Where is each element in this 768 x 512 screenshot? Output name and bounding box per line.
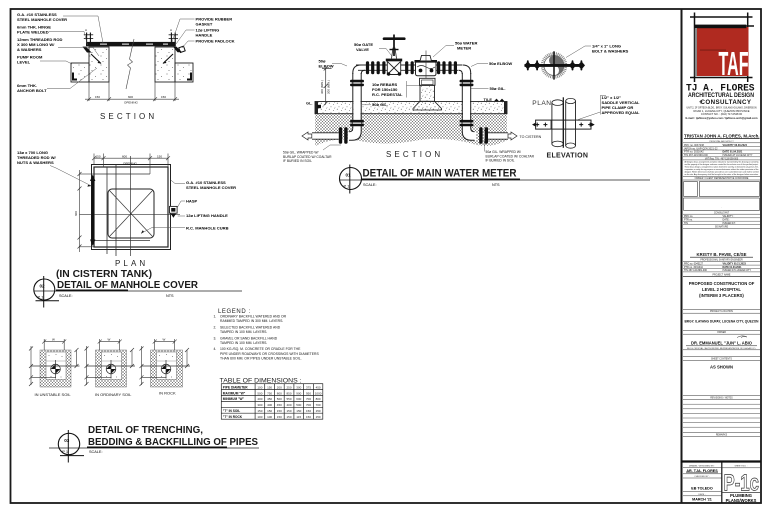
left dimension line	[78, 170, 95, 252]
svg-text:EB TOLEDO: EB TOLEDO	[691, 487, 713, 491]
svg-text:GL.: GL.	[306, 101, 312, 106]
svg-text:AS SHOWN: AS SHOWN	[710, 364, 733, 369]
logo red square	[697, 27, 749, 76]
top dimension line	[92, 154, 170, 175]
legend item 2	[214, 325, 281, 334]
svg-text:TO CISTERN: TO CISTERN	[520, 135, 542, 139]
svg-text:TAMPED IN 100 MM. LAYERS.: TAMPED IN 100 MM. LAYERS.	[220, 330, 267, 334]
water meter title line	[340, 178, 651, 181]
logo frame	[690, 13, 754, 83]
svg-text:300 (MIN.): 300 (MIN.)	[320, 80, 324, 94]
sanitary rows	[684, 262, 752, 272]
curb inner square	[94, 167, 168, 247]
trench detail in rock	[140, 338, 191, 396]
svg-text:KRISTY B. PAVIE, CE/SE: KRISTY B. PAVIE, CE/SE	[697, 252, 747, 257]
svg-text:3.: 3.	[214, 336, 217, 340]
annotation threaded rod plan	[17, 150, 92, 187]
sheet contents heading	[683, 356, 760, 358]
break line	[126, 39, 134, 89]
anchor rod right diagonal	[163, 54, 173, 64]
svg-text:DR. EMMANUEL "JUN" L. ABIO: DR. EMMANUEL "JUN" L. ABIO	[691, 341, 753, 346]
svg-text:150: 150	[306, 415, 311, 419]
svg-text:CONSULTANT: CONSULTANT	[714, 211, 730, 214]
manhole cover SECTION detail	[17, 12, 235, 121]
svg-text:PIPE DIAMETER: PIPE DIAMETER	[223, 385, 248, 389]
flange pairs on vertical pipes	[350, 80, 474, 86]
svg-text:IN ROCK: IN ROCK	[159, 391, 176, 396]
svg-text:MAXIMUM "W": MAXIMUM "W"	[223, 391, 246, 395]
svg-text:200 (MIN.): 200 (MIN.)	[327, 80, 331, 94]
svg-text:IF BURIED IN SOIL: IF BURIED IN SOIL	[486, 159, 515, 163]
svg-text:550: 550	[286, 397, 291, 401]
svg-text:600: 600	[74, 211, 78, 216]
svg-text:DRAWN / DESIGNED BY :: DRAWN / DESIGNED BY :	[689, 464, 716, 467]
svg-text:700: 700	[306, 397, 311, 401]
cover top edge lines	[94, 173, 150, 175]
svg-text:LEVEL: LEVEL	[17, 60, 31, 65]
pipe clamp PLAN detail	[524, 44, 640, 160]
title line	[34, 289, 242, 292]
svg-text:(INTERIM 3 PLACERS): (INTERIM 3 PLACERS)	[699, 293, 744, 298]
svg-text:150: 150	[95, 95, 100, 99]
svg-text:R.C. MANHOLE CURB: R.C. MANHOLE CURB	[186, 226, 229, 231]
svg-text:600: 600	[128, 95, 133, 99]
svg-text:REVISIONS / NOTES: REVISIONS / NOTES	[710, 398, 733, 400]
svg-text:SCALE:: SCALE:	[59, 294, 73, 298]
svg-text:100 KG./SQ. M. CONCRETE OR CRA: 100 KG./SQ. M. CONCRETE OR CRADLE FOR TH…	[220, 347, 301, 351]
detail bubble 01	[340, 165, 362, 194]
annotation gate valve	[354, 42, 392, 56]
svg-text:ELBOW: ELBOW	[319, 64, 334, 69]
left vertical pipe	[353, 73, 361, 125]
svg-text:150: 150	[306, 409, 311, 413]
owner name with flourish	[737, 336, 747, 338]
svg-text:SIGNATURE: SIGNATURE	[715, 226, 729, 229]
project name	[689, 281, 755, 298]
clamp bolts right	[569, 60, 585, 70]
svg-text:NTS: NTS	[492, 183, 500, 187]
svg-text:"T" IN SOIL: "T" IN SOIL	[223, 409, 240, 413]
trench detail in unstable soil	[29, 338, 80, 397]
svg-text:600: 600	[296, 397, 301, 401]
annotation elbow left	[319, 59, 348, 69]
annotation bolt washers	[566, 44, 629, 58]
svg-text:400: 400	[267, 403, 272, 407]
svg-text:on the site. Any discrepancy s: on the site. Any discrepancy shall be br…	[685, 173, 759, 176]
annotation elbow right	[471, 61, 512, 67]
svg-text:150: 150	[316, 409, 321, 413]
svg-text:TAMPED IN 100 MM. LAYERS.: TAMPED IN 100 MM. LAYERS.	[220, 341, 267, 345]
annotation saddle clamp	[576, 95, 640, 120]
svg-text:THAN 600 MM. OR PIPES UNDER UN: THAN 600 MM. OR PIPES UNDER UNSTABLE SOI…	[220, 357, 302, 361]
svg-text:LEVEL 2 HOSPITAL: LEVEL 2 HOSPITAL	[702, 287, 741, 292]
svg-text:SELECTED BACKFILL WATERED AND: SELECTED BACKFILL WATERED AND	[220, 325, 281, 329]
curb outer square	[92, 165, 171, 250]
svg-text:02: 02	[40, 284, 46, 289]
logo shadow	[695, 28, 697, 76]
svg-text:SECTION: SECTION	[386, 150, 443, 159]
svg-text:OPENING: OPENING	[123, 161, 138, 165]
main water meter detail	[283, 35, 650, 194]
svg-text:BRGY. ILAYANG DUPAY, LUCENA CI: BRGY. ILAYANG DUPAY, LUCENA CITY, QUEZON	[685, 319, 759, 323]
logo top black bar	[695, 25, 747, 29]
slab right end cap	[504, 102, 507, 114]
svg-text:150: 150	[267, 409, 272, 413]
left bottom elbow and stub pipe	[302, 122, 361, 144]
svg-text:METER: METER	[457, 46, 471, 51]
manhole cover PLAN detail	[17, 150, 242, 308]
left anchor bolt	[84, 28, 93, 42]
svg-text:OPENING: OPENING	[124, 100, 139, 104]
annotation threaded rod	[17, 37, 99, 56]
svg-text:DETAIL OF TRENCHING,: DETAIL OF TRENCHING,	[88, 424, 203, 436]
svg-text:APPROVED EQUAL: APPROVED EQUAL	[602, 110, 641, 115]
annotation hinge plate	[17, 25, 88, 46]
detail bubble 02	[34, 276, 59, 308]
svg-text:115: 115	[296, 415, 301, 419]
svg-text:CONTACT NO. : (042) 717-0528 0: CONTACT NO. : (042) 717-0528 00	[701, 112, 743, 116]
logo small text line	[700, 50, 726, 51]
annotation padlock	[182, 39, 235, 49]
svg-text:P-1c: P-1c	[724, 470, 760, 496]
svg-text:DETAIL OF MAIN WATER METER: DETAIL OF MAIN WATER METER	[363, 168, 517, 180]
legend item 4	[214, 347, 320, 360]
svg-text:GASKET: GASKET	[196, 22, 213, 27]
elevation front pipe	[552, 100, 563, 147]
svg-text:300: 300	[296, 385, 301, 389]
left wall concrete	[89, 47, 109, 82]
dimension line section	[85, 97, 179, 101]
svg-text:& WASHERS: & WASHERS	[17, 47, 42, 52]
svg-text:W: W	[108, 338, 111, 342]
left ledge footing	[71, 63, 89, 82]
centerline horizontal	[80, 214, 181, 216]
anchor rod left diagonal	[91, 54, 101, 64]
svg-text:4.: 4.	[214, 347, 217, 351]
curb inner verticals	[106, 167, 108, 254]
pedestal column	[413, 85, 442, 110]
svg-text:700: 700	[306, 403, 311, 407]
elevation rear pipe	[566, 98, 576, 148]
svg-text:ANCHOR BOLT: ANCHOR BOLT	[17, 88, 47, 93]
project location heading	[683, 308, 760, 310]
svg-text:450: 450	[277, 403, 282, 407]
concrete slab	[315, 102, 507, 114]
svg-text:AR. TJA. FLORES: AR. TJA. FLORES	[686, 469, 718, 473]
svg-text:SCALE:: SCALE:	[363, 183, 377, 187]
svg-text:SCALE:: SCALE:	[89, 450, 103, 454]
svg-text:MARCH '21: MARCH '21	[692, 498, 712, 502]
svg-text:50ø GIL.: 50ø GIL.	[372, 102, 388, 107]
svg-text:TRISTAN JOHN A. FLORES, M.Arch: TRISTAN JOHN A. FLORES, M.Arch.	[684, 133, 760, 138]
svg-text:DATE :: DATE :	[699, 493, 706, 496]
svg-text:1.: 1.	[214, 315, 217, 319]
svg-text:600: 600	[122, 154, 127, 158]
remarks heading	[683, 431, 760, 433]
svg-text:IF BURIED IN SOIL: IF BURIED IN SOIL	[283, 159, 312, 163]
annotation rubber gasket	[172, 17, 232, 43]
centerline vertical	[129, 156, 131, 256]
svg-text:ORDINARY BACKFILL WATERED AND: ORDINARY BACKFILL WATERED AND OR	[220, 315, 287, 319]
right vertical pipe	[462, 73, 470, 125]
annotation plan cover	[171, 180, 236, 190]
svg-text:400: 400	[286, 403, 291, 407]
svg-text:A: A	[170, 28, 172, 32]
table row labels	[223, 385, 248, 419]
svg-text:400: 400	[257, 397, 262, 401]
annotation pump room level	[17, 55, 72, 65]
gate valve stem and handle	[384, 35, 404, 59]
svg-text:150: 150	[277, 409, 282, 413]
trenching title line	[49, 446, 259, 449]
disclaimer paragraph	[685, 161, 760, 177]
svg-text:1000: 1000	[315, 391, 322, 395]
svg-text:PLAN: PLAN	[532, 100, 551, 107]
svg-text:150: 150	[257, 409, 262, 413]
svg-text:P 1: P 1	[344, 184, 351, 189]
svg-text:12ø LIFTING HANDLE: 12ø LIFTING HANDLE	[186, 213, 228, 218]
svg-text:900: 900	[296, 391, 301, 395]
consultant rows	[684, 215, 736, 225]
svg-text:03: 03	[64, 438, 70, 443]
wall extension lines below	[89, 82, 175, 101]
legend item 1	[214, 315, 287, 324]
svg-text:W: W	[163, 338, 166, 342]
left hinge plate	[83, 47, 92, 53]
svg-text:700: 700	[316, 403, 321, 407]
svg-text:STEEL MANHOLE COVER: STEEL MANHOLE COVER	[186, 185, 236, 190]
manhole cover plate	[86, 42, 176, 47]
annotation gil left	[362, 102, 388, 107]
svg-text:50ø ELBOW: 50ø ELBOW	[489, 61, 512, 66]
svg-text:375: 375	[306, 385, 311, 389]
clamp band elevation	[532, 120, 595, 129]
svg-text:PROFESSIONAL SANITARY ENGINEER: PROFESSIONAL SANITARY ENGINEER	[700, 259, 743, 262]
title block left border	[681, 9, 683, 503]
right anchor bolt	[169, 28, 178, 42]
svg-text:PROPOSED CONSTRUCTION OF: PROPOSED CONSTRUCTION OF	[689, 281, 755, 286]
svg-text:SHEET CONTENTS: SHEET CONTENTS	[711, 358, 732, 360]
hasp	[170, 206, 178, 217]
svg-text:HANDLE: HANDLE	[196, 33, 213, 38]
svg-text:MINIMUM "W": MINIMUM "W"	[223, 397, 245, 401]
license rows	[684, 144, 753, 157]
right elbow	[459, 65, 471, 74]
svg-text:150: 150	[296, 409, 301, 413]
table of dimensions grid	[221, 384, 322, 420]
svg-text:OWNER / CLIENT REPRESENTATIVE: OWNER / CLIENT REPRESENTATIVE CONFORME	[695, 177, 749, 180]
svg-text:P 1: P 1	[38, 295, 45, 300]
slab left end cap	[315, 102, 318, 114]
annotation water meter	[433, 41, 477, 58]
svg-text:500: 500	[257, 391, 262, 395]
detail bubble 03	[58, 430, 84, 463]
svg-text:150: 150	[267, 385, 272, 389]
address lines	[687, 106, 757, 116]
svg-text:150: 150	[286, 415, 291, 419]
right wall concrete	[155, 47, 175, 82]
svg-text:ELEVATION: ELEVATION	[547, 153, 589, 160]
svg-text:SECTION: SECTION	[100, 112, 157, 121]
svg-text:PROJECT LOCATION: PROJECT LOCATION	[710, 310, 733, 313]
svg-text:IN ORDINARY SOIL: IN ORDINARY SOIL	[95, 392, 132, 397]
svg-text:VAT Reg. TIN : 467-119-590-000: VAT Reg. TIN : 467-119-590-000	[705, 157, 739, 160]
svg-text:PLAN: PLAN	[115, 259, 148, 268]
annotation lifting handle	[176, 28, 219, 45]
svg-text:PROVIDE PADLOCK: PROVIDE PADLOCK	[196, 39, 235, 44]
svg-text:50ø GIL.: 50ø GIL.	[490, 86, 506, 91]
svg-text:250: 250	[286, 385, 291, 389]
svg-text:PIPE UNDER ROADWAYS OR CROSSIN: PIPE UNDER ROADWAYS OR CROSSINGS WITH DI…	[220, 352, 319, 356]
svg-text:IN UNSTABLE SOIL: IN UNSTABLE SOIL	[35, 392, 72, 397]
svg-text:750: 750	[267, 391, 272, 395]
svg-text:300: 300	[257, 403, 262, 407]
svg-text:NTS: NTS	[166, 294, 174, 298]
svg-text:DETAIL OF MANHOLE COVER: DETAIL OF MANHOLE COVER	[57, 279, 198, 291]
svg-text:150: 150	[96, 154, 101, 158]
right padlock hasp	[173, 46, 185, 52]
slab corner block	[317, 105, 321, 108]
svg-text:RAMMED TAMPED IN 300 MM. LAYER: RAMMED TAMPED IN 300 MM. LAYERS.	[220, 319, 283, 323]
svg-text:BEDDING & BACKFILLING OF PIPES: BEDDING & BACKFILLING OF PIPES	[88, 436, 258, 448]
svg-text:E-mail : tjaflores@yahoo.com /: E-mail : tjaflores@yahoo.com / tjaflores…	[686, 116, 759, 120]
elevation centerline	[562, 97, 564, 148]
title block	[681, 9, 761, 503]
signature boxes	[684, 182, 698, 197]
svg-text:SHEET NO. :: SHEET NO. :	[735, 465, 748, 467]
svg-text:100: 100	[267, 415, 272, 419]
svg-text:450: 450	[316, 385, 321, 389]
svg-text:TILE: TILE	[484, 97, 493, 102]
clamp bolts left	[524, 60, 541, 70]
annotation anchor bolt	[17, 68, 97, 93]
svg-text:500: 500	[277, 397, 282, 401]
gate valve body	[386, 59, 402, 76]
soil hatch below slab	[315, 114, 507, 146]
flange pairs above bottom elbows	[350, 120, 474, 126]
svg-text:950: 950	[306, 391, 311, 395]
svg-text:100: 100	[257, 385, 262, 389]
svg-text:850: 850	[286, 391, 291, 395]
svg-text:100: 100	[257, 415, 262, 419]
cover square with diagonals	[108, 189, 154, 238]
svg-text:800: 800	[316, 397, 321, 401]
svg-text:CONSULTANCY: CONSULTANCY	[701, 99, 752, 106]
legend item 3	[214, 336, 278, 345]
pedestal top cap	[420, 78, 436, 85]
svg-text:800: 800	[277, 391, 282, 395]
svg-text:01: 01	[346, 173, 352, 178]
annotation rc manhole curb	[141, 226, 229, 234]
svg-text:PRINCIPAL ARCHITECT: PRINCIPAL ARCHITECT	[709, 140, 734, 143]
annotation wrapped burlap left	[283, 145, 341, 163]
revisions heading	[683, 395, 760, 397]
annotation wrapped burlap right	[484, 141, 534, 163]
svg-text:HASP: HASP	[186, 199, 198, 204]
svg-text:2.: 2.	[214, 325, 217, 329]
tile symbol right	[494, 99, 505, 102]
svg-text:BLDG OFFICIAL / AUTHORIZED REP: BLDG OFFICIAL / AUTHORIZED REPRESENTATIV…	[687, 347, 756, 350]
svg-text:GRAVEL OR SAND BACKFILL HAND: GRAVEL OR SAND BACKFILL HAND	[220, 336, 278, 340]
svg-text:PLANS/WORKS: PLANS/WORKS	[726, 498, 757, 503]
svg-text:NUTS & WASHERS: NUTS & WASHERS	[17, 160, 54, 165]
horizontal pipe	[356, 65, 462, 70]
svg-text:TAF: TAF	[719, 45, 749, 82]
annotation GA stainless cover	[17, 12, 103, 43]
svg-text:R.C. PEDESTAL: R.C. PEDESTAL	[372, 92, 403, 97]
svg-text:BOLT & WASHERS: BOLT & WASHERS	[592, 49, 629, 54]
water meter body	[415, 51, 438, 79]
svg-text:500: 500	[296, 403, 301, 407]
svg-text:OWNER: OWNER	[717, 332, 726, 334]
svg-text:P 1: P 1	[62, 449, 69, 454]
owner heading	[683, 329, 760, 331]
annotation rebars pedestal	[372, 81, 420, 98]
svg-text:150: 150	[161, 95, 166, 99]
left dimension vertical	[322, 67, 332, 106]
threaded rod bar	[90, 175, 95, 247]
right bottom elbow and stub pipe	[462, 122, 541, 144]
trench detail in ordinary soil	[85, 338, 136, 397]
svg-text:W: W	[52, 338, 55, 342]
flange pairs on horizontal pipe	[366, 61, 457, 74]
annotation gil right	[471, 86, 505, 91]
revision empty rows	[683, 404, 760, 427]
right ledge footing	[175, 63, 193, 82]
svg-text:STEEL MANHOLE COVER: STEEL MANHOLE COVER	[17, 17, 67, 22]
svg-text:150: 150	[316, 415, 321, 419]
annotation lifting handle plan	[178, 213, 228, 218]
svg-text:PLATE WELDED: PLATE WELDED	[17, 30, 49, 35]
annotation hasp	[177, 199, 197, 208]
bottom section divider	[681, 460, 761, 462]
svg-text:REMARKS: REMARKS	[716, 433, 728, 436]
svg-text:"T" IN ROCK: "T" IN ROCK	[223, 415, 243, 419]
svg-text:450: 450	[267, 397, 272, 401]
svg-text:A: A	[85, 28, 87, 32]
svg-text:VALVE: VALVE	[356, 47, 369, 52]
svg-text:150: 150	[286, 409, 291, 413]
table values	[257, 385, 321, 419]
svg-text:150: 150	[157, 154, 162, 158]
svg-text:150: 150	[277, 415, 282, 419]
svg-text:PROJECT NAME: PROJECT NAME	[713, 273, 731, 276]
svg-text:CHECKED BY :: CHECKED BY :	[694, 476, 710, 478]
svg-text:200: 200	[277, 385, 282, 389]
left elbow	[353, 65, 365, 74]
wide box	[684, 198, 760, 210]
